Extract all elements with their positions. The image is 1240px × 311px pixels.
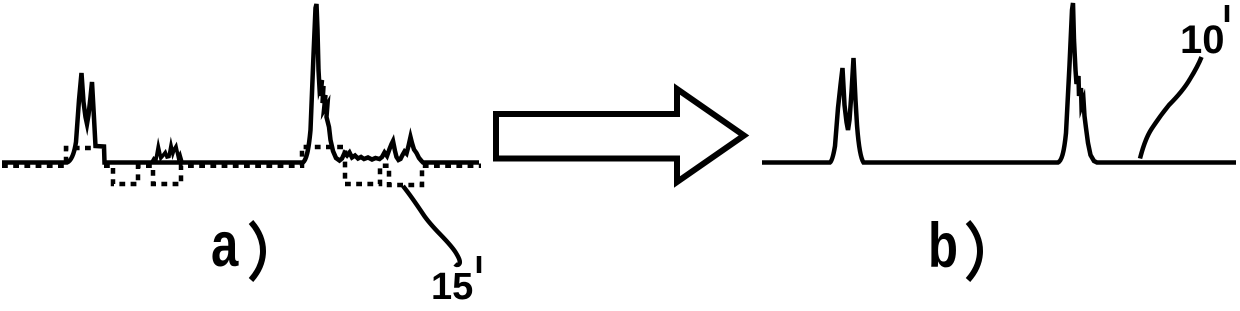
- svg-text:b: b: [928, 210, 958, 280]
- svg-text:15: 15: [431, 266, 473, 306]
- svg-text:10: 10: [1180, 18, 1225, 62]
- svg-text:a: a: [211, 209, 239, 279]
